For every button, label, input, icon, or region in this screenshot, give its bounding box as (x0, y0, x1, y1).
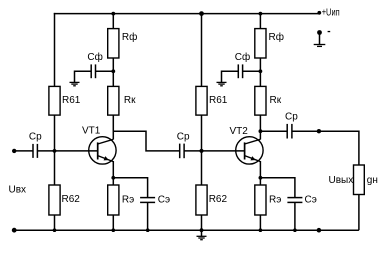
svg-text:R62: R62 (209, 194, 228, 205)
wire VT1 emitter down (112, 161, 114, 178)
node output lower terminal (317, 228, 322, 233)
wire R61 bottom to R62 top (54, 115, 56, 185)
svg-text:+Uип: +Uип (322, 7, 340, 18)
svg-text:Сэ: Сэ (158, 194, 170, 205)
svg-text:VT1: VT1 (82, 126, 101, 137)
wire R61-2 bottom to R62-2 top (201, 115, 203, 185)
wire top rail to Rf1 (112, 14, 114, 29)
svg-text:Cp: Cp (285, 112, 298, 123)
node R62-1 ground junction (53, 228, 57, 232)
resistor gn load (354, 165, 365, 195)
svg-text:Uвх: Uвх (9, 185, 27, 196)
wire emitter node to Ce1 (113, 178, 147, 197)
svg-text:Rк: Rк (124, 95, 136, 106)
transistor VT2 emitter arrow (251, 156, 256, 160)
capacitor Cp input plates (32, 144, 34, 158)
node stage2 rail junction (199, 11, 204, 16)
transistor VT1 emitter lead (98, 156, 114, 162)
ground Cf1 (70, 81, 80, 83)
wire Rn bottom to ground rail (358, 195, 360, 231)
node output terminal (317, 129, 321, 133)
capacitor Ce1 plates (140, 197, 155, 199)
wire Re2 bottom to ground rail (259, 215, 261, 230)
svg-text:VT2: VT2 (230, 126, 249, 137)
transistor VT1 emitter arrow (104, 156, 109, 160)
wire Ce1 bottom to ground rail (147, 203, 149, 230)
svg-text:Uвых: Uвых (329, 175, 354, 186)
wire left branch2 down to R61-2 (201, 13, 203, 87)
wire emitter node to Re1 (112, 178, 114, 185)
svg-text:R61: R61 (62, 95, 81, 106)
svg-text:Rэ: Rэ (122, 194, 134, 205)
wire Rk2 bottom to VT2 collector (259, 115, 261, 139)
wire Cf2 left plate to ground (222, 71, 239, 82)
transistor VT2 circle (236, 137, 263, 164)
wire emitter2 node to Re2 (259, 178, 261, 185)
transistor VT2 emitter lead (245, 156, 261, 162)
wire Re1 bottom to ground rail (112, 215, 114, 230)
wire top rail to Rf2 (259, 14, 261, 29)
node Cf2 tap junction (259, 69, 263, 73)
wire output Cp to load corner (292, 131, 359, 165)
wire collector2 branch to output Cp (260, 130, 287, 132)
capacitor Cf1 plates (90, 64, 92, 78)
resistor R61 (stage 2) (196, 86, 207, 115)
capacitor Cf2 plates (237, 64, 239, 78)
node R62-2 ground junction (200, 228, 204, 232)
wire input terminal to Cp (14, 150, 33, 152)
capacitor Cp output plates (286, 124, 288, 139)
resistor Rk (stage 2) (255, 86, 266, 115)
node Re1 ground junction (112, 228, 116, 232)
wire Rf2 bottom to Rk2 top (Cf2 tap) (259, 58, 261, 86)
svg-text:Rф: Rф (122, 31, 137, 43)
transistor VT2 base bar (244, 142, 246, 159)
wire ground rail bottom (14, 229, 359, 231)
wire emitter2 node to Ce2 (260, 178, 295, 197)
wire VT2 emitter down (259, 161, 261, 178)
node VT1 emitter junction (111, 176, 115, 180)
node input terminal (12, 149, 16, 153)
wire Ce2 bottom to ground rail (294, 203, 296, 230)
wire mid ground stub (201, 230, 203, 236)
transistor VT1 collector lead (98, 139, 114, 144)
svg-text:Rк: Rк (270, 95, 282, 106)
svg-text:Rф: Rф (269, 31, 284, 43)
ground supply minus (314, 44, 326, 46)
resistor R62 (stage 2) (196, 185, 207, 215)
svg-text:Сф: Сф (87, 51, 102, 63)
resistor Rf (stage 2) (255, 29, 266, 58)
svg-text:R61: R61 (209, 95, 228, 106)
resistor R61 (stage 1) (49, 86, 60, 115)
svg-text:Сэ: Сэ (305, 194, 317, 205)
resistor Rk (stage 1) (108, 86, 119, 115)
transistor VT2 collector lead (245, 139, 261, 144)
svg-text:gн: gн (367, 175, 378, 186)
node Rf2 top rail junction (259, 12, 263, 16)
resistor Rf (stage 1) (108, 29, 119, 58)
wire base node to VT1 base (55, 150, 98, 152)
resistor R62 (stage 1) (49, 185, 60, 215)
svg-text:Cp: Cp (177, 132, 190, 143)
wire Cp to base node (37, 150, 54, 152)
wire Rk1 bottom to VT1 collector (112, 115, 114, 139)
node supply minus terminal (317, 30, 322, 35)
wire interstage Cp to stage2 base node (184, 150, 201, 152)
ground Cf2 (217, 81, 227, 83)
resistor Re (stage 1) (108, 185, 119, 215)
wire R62 bottom to ground rail (54, 215, 56, 230)
node VT2 collector junction (259, 129, 263, 133)
wire stage2 base node to VT2 base (202, 150, 245, 152)
wire Rf1 bottom to Rk1 top (Cf tap) (112, 58, 114, 86)
svg-text:Сф: Сф (235, 51, 250, 63)
ground bottom rail (197, 235, 207, 237)
node VT2 emitter junction (259, 176, 263, 180)
node Ce1 ground junction (146, 228, 150, 232)
node VT2 base junction (200, 149, 204, 153)
node VT1 base junction (53, 149, 57, 153)
node +Uip terminal (317, 11, 321, 15)
wire left branch down to R61 (54, 13, 56, 87)
node Re2 ground junction (259, 228, 263, 232)
capacitor Ce2 plates (287, 197, 302, 199)
svg-text:Cp: Cp (29, 131, 42, 142)
node input lower terminal (12, 228, 17, 233)
wire Cf2 right plate to tap (243, 70, 261, 72)
wire Cf1 right plate to tap (96, 70, 114, 72)
wire top supply rail (54, 13, 319, 15)
resistor Re (stage 2) (255, 185, 266, 215)
node Rf1 top rail junction (111, 12, 115, 16)
label supply minus sign (328, 31, 331, 32)
wire R62-2 bottom to ground rail (201, 215, 203, 230)
node Ce2 ground junction (293, 228, 297, 232)
transistor VT1 base bar (97, 142, 99, 159)
transistor VT1 circle (89, 137, 116, 164)
capacitor Cp interstage plates (179, 144, 181, 159)
wire collector branch to interstage Cp (113, 131, 179, 151)
svg-text:Rэ: Rэ (269, 194, 281, 205)
svg-text:R62: R62 (62, 194, 81, 205)
wire Cf1 left plate to ground (75, 71, 92, 82)
node Cf1 tap junction (111, 69, 115, 73)
wire supply minus stub (319, 33, 321, 45)
